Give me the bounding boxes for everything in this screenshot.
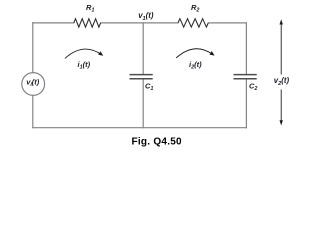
svg-text:R2: R2 bbox=[191, 3, 199, 14]
svg-text:i1(t): i1(t) bbox=[78, 60, 91, 71]
svg-text:v1(t): v1(t) bbox=[138, 11, 154, 22]
svg-text:C1: C1 bbox=[145, 81, 153, 92]
svg-text:v2(t): v2(t) bbox=[274, 76, 290, 87]
svg-text:C2: C2 bbox=[249, 81, 257, 92]
svg-text:i2(t): i2(t) bbox=[189, 60, 202, 71]
svg-text:R1: R1 bbox=[86, 3, 94, 14]
svg-text:vi(t): vi(t) bbox=[26, 78, 40, 89]
svg-text:Fig. Q4.50: Fig. Q4.50 bbox=[132, 136, 182, 147]
